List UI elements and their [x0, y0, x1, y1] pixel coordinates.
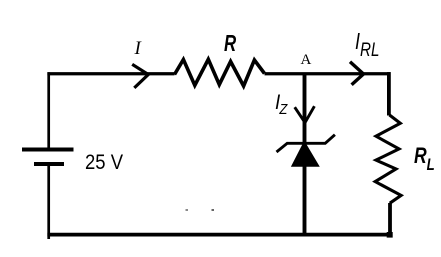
- wire zener to bottom wire: [303, 165, 307, 235]
- wire left vertical lower (battery to bottom wire): [47, 166, 50, 239]
- resistor R_L zigzag: [375, 115, 401, 203]
- label R (series resistor): [224, 30, 236, 57]
- stray dot right: [212, 209, 215, 211]
- current I_Z arrowhead: [295, 106, 315, 122]
- wire right vertical (top corner to R_L): [387, 72, 391, 115]
- wire R_L to bottom-right corner: [388, 203, 392, 235]
- stray dot left: [186, 209, 189, 211]
- label R_L (load resistor): [414, 143, 435, 175]
- battery B1 positive plate: [22, 148, 74, 152]
- zener diode D1 triangle (anode, pointing up): [292, 142, 319, 167]
- label I_RL: [355, 28, 379, 62]
- zener diode D1 cathode bar with bent ends: [277, 135, 335, 152]
- label 25 V (battery voltage): [85, 151, 123, 175]
- label I (current into resistor): [135, 38, 141, 60]
- current I arrowhead: [132, 64, 148, 88]
- current I_RL arrowhead: [350, 62, 364, 85]
- wire middle branch (node A down to zener): [303, 74, 307, 145]
- wire bottom horizontal: [47, 233, 390, 237]
- junction dot bottom-right: [387, 232, 393, 238]
- wire left vertical upper (top corner to battery): [47, 72, 50, 148]
- label I_Z: [275, 91, 287, 118]
- battery B1 negative plate: [34, 162, 64, 166]
- resistor R zigzag: [175, 59, 265, 86]
- wire top horizontal (battery to resistor R): [47, 72, 174, 75]
- wire resistor R to node A to top-right corner: [265, 72, 391, 75]
- node A label: [301, 52, 312, 69]
